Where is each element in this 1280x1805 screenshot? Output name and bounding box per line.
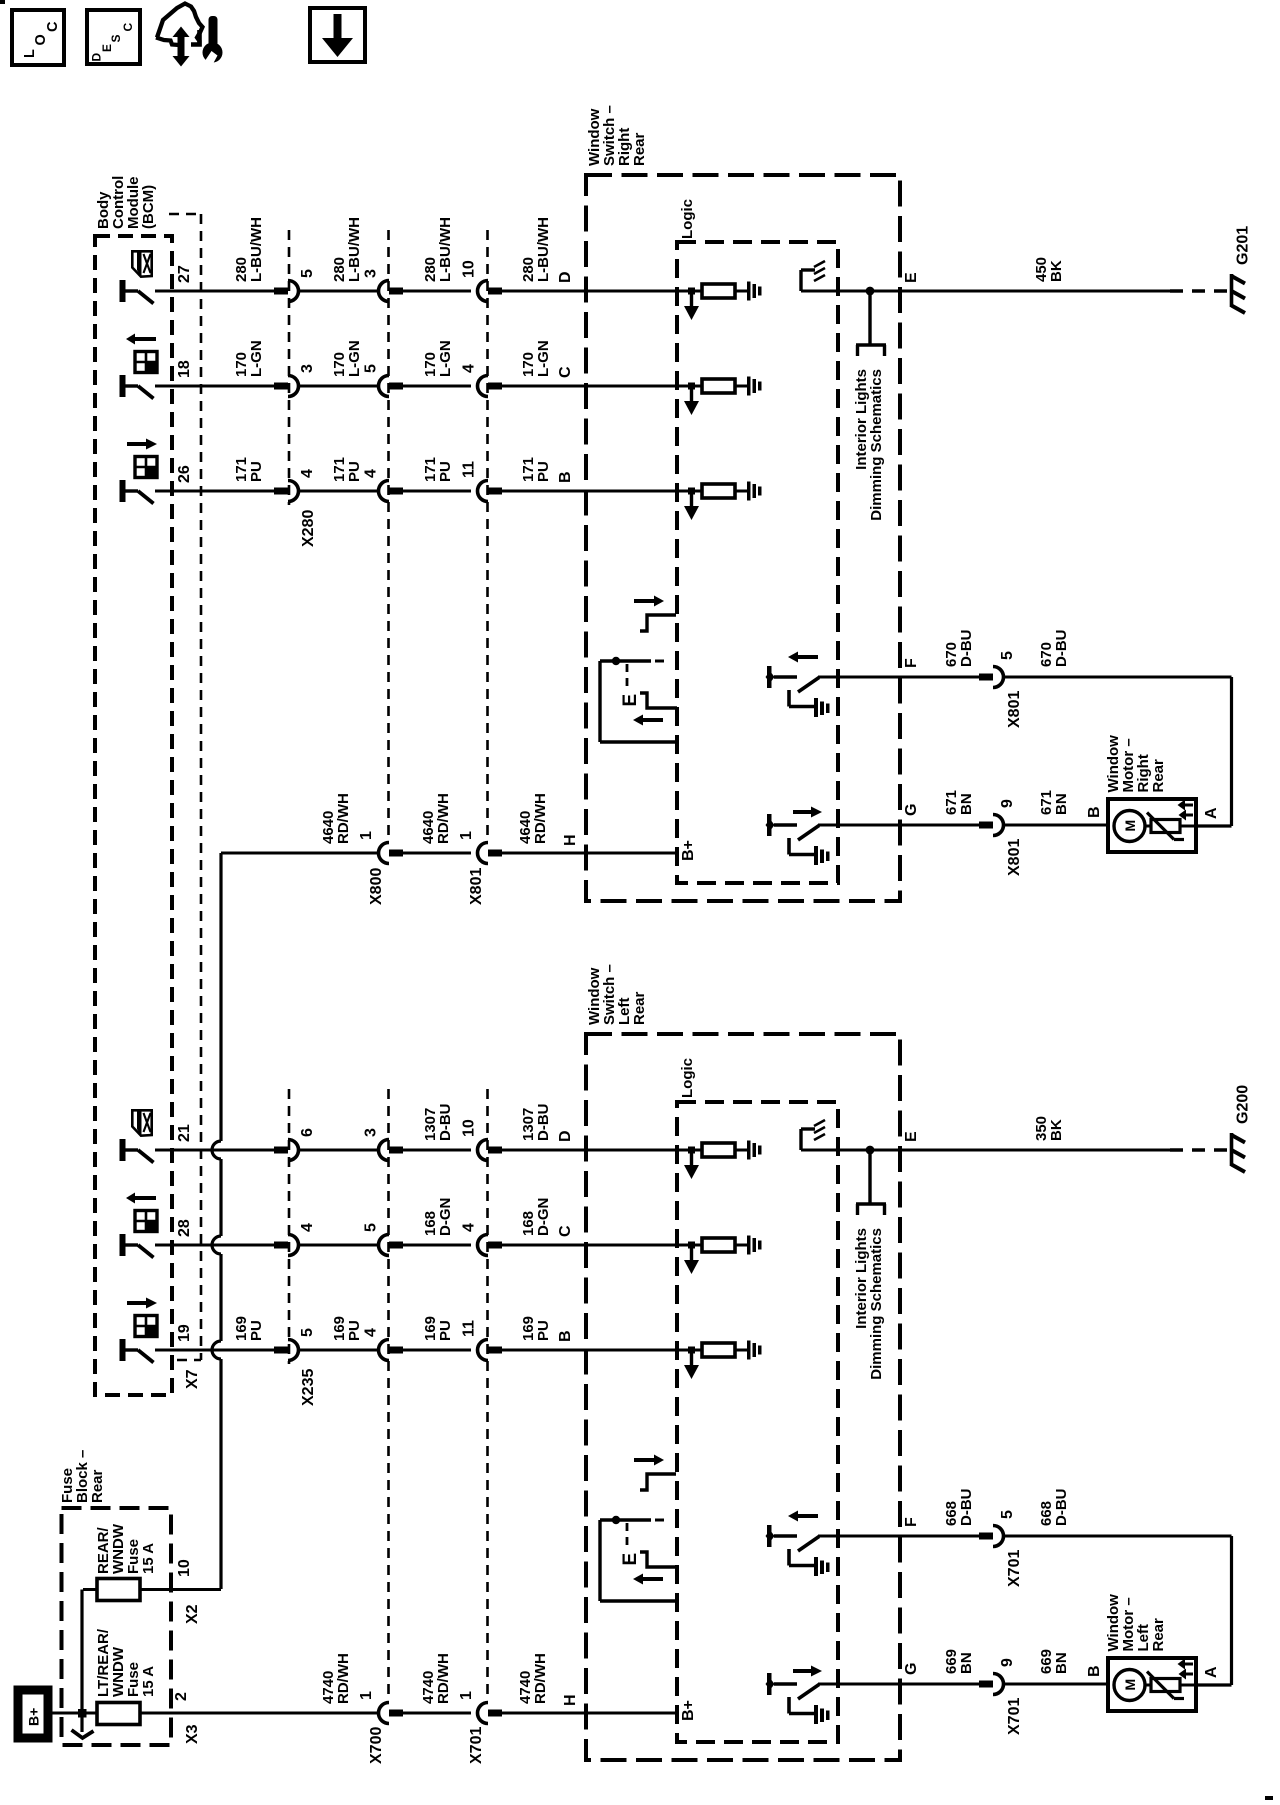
wire 350 BK ground wire [801,1149,1170,1152]
logic input resistor and ground [688,288,695,295]
svg-text:10: 10 [461,1119,478,1137]
svg-text:D-BU: D-BU [958,630,975,668]
svg-text:4: 4 [461,1223,478,1232]
logic input resistor and ground [688,1147,695,1154]
svg-text:PU: PU [248,461,265,482]
svg-text:A: A [1203,1666,1220,1678]
svg-text:9: 9 [999,1658,1016,1667]
svg-text:D-BU: D-BU [958,1489,975,1527]
svg-text:28: 28 [176,1219,193,1237]
svg-text:B+: B+ [680,840,697,861]
connector X701 terminal 5 [979,1533,993,1540]
connector X801 terminal row 3 [478,481,488,502]
connector X801 terminal 9 [979,822,993,829]
svg-text:PU: PU [346,461,363,482]
LOC button [12,10,64,65]
down arrow button [310,8,365,62]
svg-text:15 A: 15 A [140,1666,157,1697]
svg-text:4: 4 [299,1223,316,1232]
svg-text:4: 4 [363,469,380,478]
svg-text:Dimming Schematics: Dimming Schematics [868,369,885,521]
svg-text:4: 4 [299,469,316,478]
logic input resistor and ground [688,1242,695,1249]
svg-text:E: E [100,44,114,52]
wire 671 BN [818,824,979,827]
B+ riser wire [219,853,222,1141]
DESC button [87,10,140,64]
wire 4740 RD/WH [52,1712,97,1715]
svg-text:Rear: Rear [1150,1618,1167,1652]
connector X801 terminal row 1 [478,281,488,302]
svg-text:L-BU/WH: L-BU/WH [535,217,552,282]
connector X701 terminal row 1 [478,1140,488,1161]
switch internal ground stub [799,1129,802,1150]
fuse block box [62,1508,172,1745]
svg-text:X3: X3 [184,1724,201,1744]
svg-text:18: 18 [176,360,193,378]
wire 668 D-BU [818,1535,979,1538]
B+ terminal [18,1690,48,1738]
svg-text:BN: BN [1053,793,1070,815]
svg-text:PU: PU [437,461,454,482]
window up icon [135,352,157,373]
BCM driver pin 28 [120,1234,126,1256]
svg-text:X235: X235 [300,1369,317,1406]
svg-text:D-BU: D-BU [1053,630,1070,668]
svg-text:(BCM): (BCM) [140,185,157,229]
svg-text:9: 9 [999,799,1016,808]
svg-text:PU: PU [346,1320,363,1341]
svg-text:A: A [1203,807,1220,819]
svg-text:19: 19 [176,1324,193,1342]
svg-text:RD/WH: RD/WH [335,793,352,844]
svg-text:1: 1 [458,1691,475,1700]
BCM driver pin 19 [120,1339,126,1361]
connector X700 dashed line [387,1089,390,1701]
svg-text:10: 10 [176,1559,193,1577]
svg-text:L-BU/WH: L-BU/WH [346,217,363,282]
connector X800 terminal row 2 [379,376,390,397]
svg-text:5: 5 [999,651,1016,660]
ground G201 [1230,274,1234,307]
svg-text:X280: X280 [300,510,317,547]
wire 168 D-GN row [155,1244,274,1247]
svg-text:H: H [562,1694,579,1706]
connector X800 terminal row 3 [379,481,390,502]
svg-text:M: M [1122,820,1138,832]
svg-text:PU: PU [248,1320,265,1341]
svg-text:X800: X800 [368,868,385,905]
svg-text:5: 5 [363,1223,380,1232]
svg-text:10: 10 [461,260,478,278]
window switch contact F [767,666,772,688]
svg-text:BN: BN [1053,1652,1070,1674]
svg-text:C: C [557,1225,574,1237]
express logic symbol right rear [634,599,656,603]
svg-text:L: L [22,49,38,58]
BCM box [95,236,172,1395]
svg-text:B+: B+ [680,1700,697,1721]
svg-text:RD/WH: RD/WH [435,793,452,844]
svg-text:G201: G201 [1235,226,1252,265]
svg-text:BN: BN [958,793,975,815]
svg-text:1: 1 [358,831,375,840]
svg-text:3: 3 [363,1128,380,1137]
page corner mark [1265,1796,1273,1800]
connector X235 terminal row 3 [274,1347,288,1354]
svg-text:X701: X701 [468,1727,485,1764]
svg-text:27: 27 [176,265,193,283]
window switch contact F [767,1525,772,1547]
svg-text:L-GN: L-GN [437,340,454,377]
connector X700 terminal row 3 [379,1340,389,1361]
svg-text:D-BU: D-BU [1053,1489,1070,1527]
logic input resistor and ground [688,1347,695,1354]
svg-text:11: 11 [461,1320,478,1337]
wire 171 PU row [155,490,274,493]
svg-text:26: 26 [176,465,193,483]
svg-text:D: D [557,1130,574,1142]
connector X701 terminal B+ [478,1703,488,1724]
window down icon [135,457,157,478]
svg-text:L-BU/WH: L-BU/WH [437,217,454,282]
wrench icon [209,16,218,47]
window disable icon [132,251,151,276]
B+ continuation stub [80,1713,83,1732]
svg-text:L-GN: L-GN [535,340,552,377]
LT/REAR/WNDW fuse [97,1703,140,1725]
svg-text:BN: BN [958,1652,975,1674]
vehicle lift icon [157,4,203,47]
corner mark [0,0,5,4]
svg-text:X801: X801 [468,868,485,905]
connector X700 terminal row 1 [379,1140,390,1161]
logic input resistor and ground [688,383,695,390]
svg-text:B: B [557,471,574,483]
svg-text:F: F [903,1517,920,1527]
connector X701 terminal 9 [979,1681,993,1688]
svg-text:RD/WH: RD/WH [532,793,549,844]
window motor right rear [1108,799,1196,852]
svg-text:X701: X701 [1006,1550,1023,1587]
svg-text:RD/WH: RD/WH [335,1653,352,1704]
connector X280 terminal row 1 [274,288,288,295]
svg-text:X801: X801 [1006,839,1023,876]
wire 170 L-GN row [155,385,274,388]
dimming schematics tap [868,1150,871,1204]
svg-text:D: D [557,271,574,283]
connector X800 terminal row 1 [379,281,390,302]
svg-text:4: 4 [363,1328,380,1337]
connector X701 terminal row 3 [478,1340,488,1361]
wire 670 D-BU [818,676,979,679]
motor feed wire [1230,677,1233,826]
window disable icon 2 [132,1110,151,1135]
BCM driver pin 27 [120,280,126,302]
Window Switch Left Rear box [586,1034,900,1760]
logic input resistor and ground [688,488,695,495]
svg-text:Logic: Logic [679,1058,696,1098]
lift double arrow [178,35,185,58]
junction [866,1146,875,1155]
connector X801 dashed line [486,230,489,842]
svg-text:PU: PU [437,1320,454,1341]
window switch contact G [767,1673,772,1695]
svg-text:C: C [557,366,574,378]
BCM driver pin 26 [120,480,126,502]
connector X280 terminal row 2 [274,383,288,390]
motor feed wire [1230,1536,1233,1685]
window up icon 2 [135,1211,157,1232]
connector X235 terminal row 1 [274,1147,288,1154]
svg-text:C: C [45,21,61,32]
dimming schematics tap [868,291,871,345]
svg-text:1: 1 [358,1691,375,1700]
window motor left rear [1108,1658,1196,1711]
BCM driver pin 21 [120,1139,126,1161]
svg-text:B+: B+ [26,1708,42,1726]
svg-text:B: B [1086,806,1103,818]
svg-text:L-BU/WH: L-BU/WH [248,217,265,282]
svg-text:15 A: 15 A [140,1543,157,1574]
svg-text:D-GN: D-GN [535,1198,552,1236]
connector X701 dashed line [486,1089,489,1701]
svg-text:X700: X700 [368,1727,385,1764]
svg-text:D-GN: D-GN [437,1198,454,1236]
connector X701 terminal row 2 [478,1235,488,1256]
svg-text:L-GN: L-GN [248,340,265,377]
svg-text:G: G [903,1663,920,1675]
wire 280 L-BU/WH row [155,290,274,293]
connector X235 dashed line [288,1089,291,1364]
svg-text:M: M [1122,1679,1138,1691]
svg-text:G200: G200 [1235,1085,1252,1124]
svg-text:6: 6 [299,1128,316,1137]
svg-text:3: 3 [363,269,380,278]
svg-text:5: 5 [299,1328,316,1337]
wire 1307 D-BU row [155,1149,274,1152]
svg-text:Rear: Rear [89,1469,106,1503]
svg-text:E: E [620,1553,641,1566]
B+ junction [78,1709,87,1718]
svg-text:Logic: Logic [679,199,696,239]
REAR/WNDW fuse [83,1588,97,1591]
svg-text:1: 1 [458,831,475,840]
motor up arrows [1183,1663,1193,1666]
svg-text:F: F [903,658,920,668]
svg-text:Dimming Schematics: Dimming Schematics [868,1228,885,1380]
connector X280 dashed line [288,230,291,505]
express logic symbol left rear [634,1458,656,1462]
svg-text:5: 5 [999,1510,1016,1519]
svg-text:5: 5 [363,364,380,373]
svg-text:X2: X2 [184,1604,201,1624]
svg-text:3: 3 [299,364,316,373]
svg-text:BK: BK [1048,1119,1065,1141]
switch internal ground stub [799,270,802,291]
Logic box left rear [677,1102,838,1742]
svg-text:Rear: Rear [631,991,648,1025]
wire 169 PU row [155,1349,274,1352]
connector X800 terminal B+ [379,843,390,864]
window down icon 2 [135,1316,157,1337]
svg-text:4: 4 [461,364,478,373]
svg-text:2: 2 [173,1692,190,1701]
B+ bus riser [80,1590,83,1714]
ground G200 [1230,1133,1234,1166]
connector X235 terminal row 2 [274,1242,288,1249]
svg-text:X701: X701 [1006,1698,1023,1735]
svg-text:E: E [620,694,641,707]
motor up arrows [1183,804,1193,807]
svg-text:Rear: Rear [631,132,648,166]
svg-text:RD/WH: RD/WH [532,1653,549,1704]
svg-text:21: 21 [176,1124,193,1142]
svg-text:E: E [903,272,920,283]
svg-text:Rear: Rear [1150,759,1167,793]
svg-text:S: S [109,34,123,42]
connector X280 terminal row 3 [274,488,288,495]
connector X700 terminal row 2 [379,1235,390,1256]
svg-text:PU: PU [535,1320,552,1341]
svg-text:B: B [1086,1665,1103,1677]
svg-text:BK: BK [1048,260,1065,282]
svg-text:11: 11 [461,461,478,478]
svg-text:L-GN: L-GN [346,340,363,377]
connector X700 terminal B+ [379,1703,390,1724]
svg-text:D-BU: D-BU [437,1104,454,1142]
svg-text:RD/WH: RD/WH [435,1653,452,1704]
wire 669 BN [818,1683,979,1686]
connector X7 dashed line [169,213,201,216]
connector X801 terminal row 2 [478,376,488,397]
svg-text:D-BU: D-BU [535,1104,552,1142]
connector X801 terminal B+ [478,843,488,864]
svg-text:E: E [903,1131,920,1142]
svg-text:C: C [121,23,135,32]
svg-text:PU: PU [535,461,552,482]
svg-text:H: H [562,834,579,846]
svg-text:B: B [557,1330,574,1342]
svg-text:D: D [90,53,104,62]
svg-text:5: 5 [299,269,316,278]
svg-text:X801: X801 [1006,691,1023,728]
wire 450 BK ground wire [801,290,1170,293]
svg-text:G: G [903,804,920,816]
junction [866,287,875,296]
BCM driver pin 18 [120,375,126,397]
wire 4640 RD/WH [221,852,378,855]
Logic box right rear [677,242,838,883]
Window Switch Right Rear box [586,175,900,901]
connector X801 terminal 5 [979,674,993,681]
window switch contact G [767,814,772,836]
connector X800 dashed line [387,230,390,842]
svg-text:X7: X7 [184,1369,201,1389]
svg-text:O: O [33,34,49,45]
